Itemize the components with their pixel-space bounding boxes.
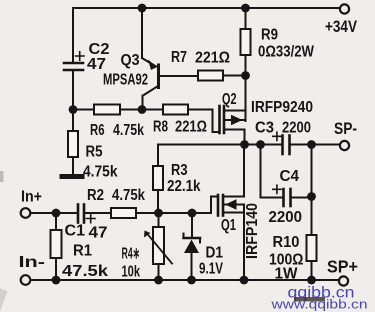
svg-text:1W: 1W [275, 266, 299, 283]
svg-text:R9: R9 [261, 27, 278, 44]
svg-text:Q1: Q1 [221, 217, 236, 234]
svg-text:221Ω: 221Ω [195, 50, 230, 67]
svg-text:2200: 2200 [269, 209, 303, 226]
svg-text:R2: R2 [87, 187, 104, 204]
svg-text:4.75k: 4.75k [83, 164, 118, 181]
svg-text:9.1V: 9.1V [199, 261, 223, 278]
svg-text:Q3: Q3 [121, 52, 140, 69]
svg-text:In+: In+ [21, 189, 42, 206]
svg-text:IRFP140: IRFP140 [244, 203, 261, 259]
svg-text:47: 47 [87, 56, 106, 73]
svg-text:In-: In- [19, 254, 46, 271]
svg-text:22.1k: 22.1k [167, 178, 201, 195]
svg-text:C1: C1 [65, 223, 86, 240]
svg-text:R5: R5 [86, 144, 103, 161]
svg-text:47.5k: 47.5k [62, 263, 108, 280]
svg-text:47: 47 [89, 225, 108, 242]
svg-text:D1: D1 [206, 245, 224, 262]
svg-text:221Ω: 221Ω [175, 119, 207, 136]
svg-text:C3: C3 [255, 120, 274, 137]
svg-text:R8: R8 [153, 119, 168, 136]
svg-text:R3: R3 [171, 162, 188, 179]
svg-text:0Ω33/2W: 0Ω33/2W [258, 44, 315, 61]
svg-text:2200: 2200 [282, 120, 311, 137]
svg-text:R7: R7 [171, 49, 187, 66]
svg-text:R10: R10 [273, 234, 300, 251]
svg-text:SP-: SP- [334, 119, 357, 138]
svg-text:C4: C4 [280, 168, 300, 185]
svg-text:MPSA92: MPSA92 [103, 72, 148, 89]
svg-text:R1: R1 [73, 243, 92, 260]
svg-text:4.75k: 4.75k [113, 122, 144, 139]
svg-text:SP+: SP+ [327, 257, 358, 277]
svg-text:10k: 10k [122, 264, 141, 281]
svg-text:R4∗: R4∗ [122, 246, 141, 263]
svg-text:4.75k: 4.75k [112, 187, 145, 204]
svg-text:Q2: Q2 [222, 91, 237, 108]
svg-text:+34V: +34V [325, 17, 358, 36]
svg-text:R6: R6 [90, 122, 105, 139]
svg-text:IRFP9240: IRFP9240 [251, 99, 313, 116]
